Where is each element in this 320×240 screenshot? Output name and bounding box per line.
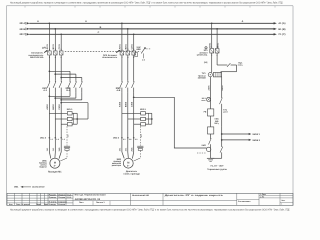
svg-text:Козлов: Козлов xyxy=(58,203,66,206)
svg-text:А403: А403 xyxy=(46,104,49,110)
svg-text:цепей упр.: цепей упр. xyxy=(197,54,208,57)
svg-text:реактора: реактора xyxy=(112,164,122,167)
node fan L2 xyxy=(54,73,56,75)
svg-text:Подп.: Подп. xyxy=(36,203,42,206)
svg-text:У1, У2 – ЭмТ: У1, У2 – ЭмТ xyxy=(210,164,224,167)
node KK1 common xyxy=(76,118,78,120)
mechanical link KM2 (dashed) xyxy=(197,152,206,154)
auxiliary contact KT1.1 xyxy=(209,138,212,147)
svg-text:выключатель: выключатель xyxy=(102,56,118,59)
svg-text:Провер.: Провер. xyxy=(49,196,57,199)
svg-text:Настоящий документ разработан,: Настоящий документ разработан, проверен … xyxy=(10,2,283,5)
svg-text:2-3: 2-3 xyxy=(140,135,143,138)
svg-text:Инст дв. Термопластавтомат: Инст дв. Термопластавтомат xyxy=(75,194,106,197)
label KM2 xyxy=(66,87,71,92)
terminal row XT1 branch1 xyxy=(40,136,65,141)
label KT1 xyxy=(204,108,229,113)
node L2 tap branch1 xyxy=(54,28,56,30)
node merge L2 xyxy=(54,97,56,99)
svg-text:ЭМ2-3: ЭМ2-3 xyxy=(113,136,120,139)
svg-text:ВА47-29 16А: ВА47-29 16А xyxy=(30,56,44,59)
wire QF2 to KM3 contacts xyxy=(122,55,134,80)
label KM1 xyxy=(42,87,47,92)
svg-text:А-З: А-З xyxy=(43,89,47,92)
node fan L3 xyxy=(60,77,62,79)
svg-text:Петров: Петров xyxy=(58,196,66,199)
bus L1 phase line xyxy=(19,22,285,25)
contact KM1.2 (right leg bottom) xyxy=(211,146,223,158)
svg-text:Согласовано: Согласовано xyxy=(238,200,251,203)
svg-text:заземление: заземление xyxy=(32,186,45,189)
svg-text:1: 1 xyxy=(281,203,282,206)
svg-text:В605: В605 xyxy=(221,85,224,91)
svg-text:В405: В405 xyxy=(125,101,128,107)
wire KM3 to KK2 xyxy=(122,93,134,114)
svg-text:АИЛВК.687254.001 Э3: АИЛВК.687254.001 Э3 xyxy=(75,198,101,201)
wire to brake group (L-route) xyxy=(134,97,207,148)
label QF2 xyxy=(102,54,118,59)
indicator lamp HL1 xyxy=(207,97,211,106)
svg-text:А1 (А): А1 (А) xyxy=(278,22,285,25)
wire bus drops to SF1 xyxy=(212,23,217,48)
thermal overload relay KK2 heaters xyxy=(122,108,152,126)
svg-text:2-1: 2-1 xyxy=(123,138,126,141)
label HL1 xyxy=(201,97,206,102)
svg-text:Лист: Лист xyxy=(16,203,20,206)
label TV1 xyxy=(198,72,207,79)
bus L2 phase line xyxy=(19,28,285,31)
node L1 tap branch1 xyxy=(49,22,51,24)
wire terminals to motor M2 xyxy=(119,139,134,159)
label motor M2 xyxy=(112,158,141,175)
node L1 tap branch2 xyxy=(121,22,123,24)
svg-text:№ докум.: № докум. xyxy=(21,203,30,206)
mechanical link QF1-QF2 (dashed) xyxy=(65,50,141,52)
svg-text:Тормозная группа: Тормозная группа xyxy=(207,168,227,171)
svg-text:В-А: В-А xyxy=(66,89,70,92)
node arrow tap 2 xyxy=(221,139,223,141)
wire QF1 to contactor contacts (phase fan-out) xyxy=(49,55,81,80)
wire contact merge below KM1/KM2 xyxy=(49,93,81,114)
svg-text:01.21: 01.21 xyxy=(67,196,72,199)
wire phases through KK1 down to terminals xyxy=(49,114,61,138)
svg-text:Настоящий документ разработан,: Настоящий документ разработан, проверен … xyxy=(10,208,290,211)
wire phases through KK2 down to terminals xyxy=(122,114,134,138)
circuit breaker QF2 xyxy=(116,48,135,59)
svg-text:1-2: 1-2 xyxy=(142,59,145,62)
svg-text:В403: В403 xyxy=(52,104,55,110)
title block xyxy=(7,193,293,206)
svg-text:3Ф С: 3Ф С xyxy=(19,33,25,36)
svg-text:А405: А405 xyxy=(119,101,122,107)
svg-text:Лист: Лист xyxy=(281,199,285,202)
svg-text:М: М xyxy=(54,161,56,164)
svg-text:Выполнений НО: Выполнений НО xyxy=(132,194,149,197)
node brake tap branch1 xyxy=(60,102,62,104)
node L3 tap branch1 xyxy=(60,33,62,35)
contactor contacts KM1 (forward) xyxy=(47,80,62,92)
node KK2 common xyxy=(151,118,153,120)
wire labels above QF2 xyxy=(119,43,134,49)
svg-text:главн. привода: главн. привода xyxy=(123,173,140,176)
node L1 tap control xyxy=(211,22,213,24)
node L2 tap branch2 xyxy=(127,28,129,30)
label brake group xyxy=(207,164,227,170)
terminal row XT2 branch2 xyxy=(113,136,138,141)
note between control wires xyxy=(214,118,219,125)
circuit breaker QF1 xyxy=(44,48,63,59)
svg-text:2-2: 2-2 xyxy=(129,138,132,141)
node L3 tap branch2 xyxy=(133,33,135,35)
wire brake tap branch1 xyxy=(61,103,88,119)
svg-text:КК1.1: КК1.1 xyxy=(67,108,73,111)
node brake-circuit tap xyxy=(133,96,135,98)
svg-text:В1 (В): В1 (В) xyxy=(278,28,285,31)
svg-text:3Ф В: 3Ф В xyxy=(19,28,25,31)
svg-text:Лист: Лист xyxy=(79,201,84,204)
auxiliary contact KM3.2 (right leg) xyxy=(220,97,223,127)
label QF1 xyxy=(28,47,47,59)
svg-text:1-3: 1-3 xyxy=(62,138,65,141)
svg-text:А605: А605 xyxy=(207,85,210,91)
motor M1 xyxy=(50,158,60,168)
svg-text:С403: С403 xyxy=(58,104,61,110)
wire/arrow to electromagnet EM16 xyxy=(222,139,261,147)
svg-text:1-2: 1-2 xyxy=(56,138,59,141)
wire labels above QF1 xyxy=(46,43,61,49)
svg-text:220/24В: 220/24В xyxy=(198,77,206,80)
label SQF xyxy=(136,46,144,62)
svg-text:Утверд.: Утверд. xyxy=(49,203,57,206)
motor M2 xyxy=(123,158,133,168)
auxiliary contact SQF on breaker linkage xyxy=(135,47,152,58)
node arrow tap 1 xyxy=(221,133,223,135)
node merge L3 xyxy=(60,99,62,101)
svg-text:ЭМ1-3: ЭМ1-3 xyxy=(40,136,47,139)
control breaker SF1 (2-pole) xyxy=(210,46,219,58)
wire/arrow to electromagnet EM10 xyxy=(222,127,261,141)
label SF1 xyxy=(197,47,209,57)
ground termination of control circuit xyxy=(207,158,214,161)
contactor contacts KM3 xyxy=(120,80,135,92)
wire labels below merge branch1 xyxy=(46,104,61,110)
svg-text:С1 (С): С1 (С) xyxy=(278,33,285,36)
svg-text:Позиция М1: Позиция М1 xyxy=(48,171,62,174)
contactor contacts KM2 (reverse) xyxy=(68,80,83,92)
relay coil KT2 xyxy=(208,127,214,139)
svg-text:подачи: подачи xyxy=(39,165,47,168)
svg-text:[24]: [24] xyxy=(204,61,208,64)
svg-text:ЭМ16 Х: ЭМ16 Х xyxy=(252,139,260,142)
wire control secondary verticals xyxy=(211,77,222,97)
node merge L1 xyxy=(49,95,51,97)
wire bus drops to QF2 xyxy=(122,23,134,51)
relay coil KT1 xyxy=(208,106,214,127)
svg-text:М: М xyxy=(127,161,129,164)
node fan L1 xyxy=(49,70,51,72)
bus L3 phase line xyxy=(19,33,285,36)
svg-text:1-3: 1-3 xyxy=(67,135,70,138)
svg-text:1-1: 1-1 xyxy=(50,138,53,141)
wire terminals to motor M1 xyxy=(46,139,61,159)
label motor M1 xyxy=(39,159,62,173)
grounding note xyxy=(14,186,45,189)
svg-text:КВФ: КВФ xyxy=(136,48,141,51)
node L2 tap control xyxy=(216,28,218,30)
svg-text:3Ф А: 3Ф А xyxy=(19,22,25,25)
svg-text:Двигатель: Двигатель xyxy=(126,170,138,173)
svg-text:QF1: QF1 xyxy=(42,47,47,50)
brake feed YB2 (dashed) branch2 xyxy=(134,126,144,161)
brake feed YB1 (dashed) branch1 xyxy=(60,126,70,161)
svg-text:Двигатель РГ в задние корыта: Двигатель РГ в задние корыта xyxy=(165,194,224,197)
svg-text:А-В: А-В xyxy=(117,89,121,92)
svg-text:3: 3 xyxy=(217,46,218,49)
svg-text:КК2.1: КК2.1 xyxy=(140,108,146,111)
thermal overload relay KK1 heaters xyxy=(49,108,77,126)
limit switch SQ1 xyxy=(227,61,243,67)
wire labels control secondary xyxy=(207,85,224,91)
wire SF1 to transformer / limit switch loop xyxy=(204,53,237,73)
wire labels below KM3 xyxy=(119,101,134,107)
control transformer TV1 xyxy=(208,73,222,77)
svg-text:ЭМ10 У: ЭМ10 У xyxy=(252,133,260,136)
wire labels control drops xyxy=(209,42,220,48)
contactor coil KM2 (brake group) xyxy=(207,147,211,158)
svg-text:конц.: конц. xyxy=(238,64,243,67)
label KM3 xyxy=(116,87,121,92)
wire bus drops to QF1 xyxy=(49,23,61,51)
svg-text:2-3: 2-3 xyxy=(135,138,138,141)
svg-text:С405: С405 xyxy=(131,101,134,107)
svg-text:Листов 1: Листов 1 xyxy=(96,201,105,204)
